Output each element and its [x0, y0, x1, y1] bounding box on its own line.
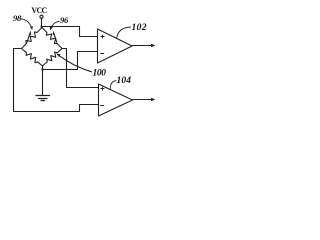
wire left node to U2 - input (left/bottom route) — [14, 49, 99, 112]
pin - U2 — [101, 105, 104, 107]
node bottom junction dot — [41, 68, 43, 70]
resistor R4 (bridge bottom-right, ref 100) — [43, 49, 63, 67]
op-amp U2 (104) — [99, 84, 133, 116]
pin + U1 — [101, 35, 104, 38]
wire right node to U2 + input — [62, 49, 99, 88]
VCC terminal circle — [40, 15, 43, 18]
pin - U1 — [101, 53, 104, 55]
svg-text:96: 96 — [60, 15, 69, 25]
leader 98 — [21, 19, 33, 30]
arrow variable R1 — [27, 31, 31, 42]
wire bottom node to ground — [42, 66, 44, 95]
svg-text:98: 98 — [13, 13, 22, 23]
leader 100 — [56, 54, 91, 72]
leader 96 — [50, 21, 60, 30]
arrow variable R2 — [53, 31, 57, 42]
pin + U2 — [101, 87, 104, 90]
resistor R3 (bridge bottom-left) — [22, 49, 43, 67]
resistor R1 (bridge top-left) — [22, 28, 43, 49]
node top junction dot — [40, 25, 42, 27]
leader 104 — [110, 81, 116, 90]
op-amp U1 (102) — [98, 29, 133, 63]
wire U2 output arrow — [133, 98, 156, 101]
leader 102 — [117, 27, 131, 38]
svg-text:100: 100 — [93, 69, 107, 79]
wire bottom node to U1 - input — [43, 52, 98, 70]
ground — [36, 96, 50, 101]
svg-text:104: 104 — [117, 76, 132, 86]
wire VCC to bridge top node — [41, 18, 43, 27]
wire U1 output arrow — [132, 44, 155, 47]
svg-text:102: 102 — [132, 23, 147, 33]
wire top node to op-amp U1 + input — [42, 27, 98, 37]
svg-text:VCC: VCC — [31, 6, 47, 15]
resistor R2 (bridge top-right) — [42, 28, 62, 49]
